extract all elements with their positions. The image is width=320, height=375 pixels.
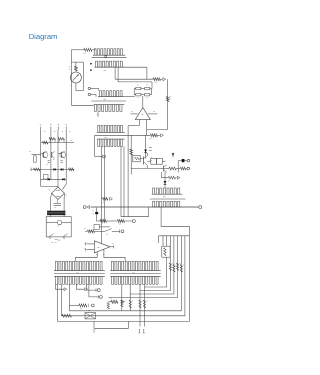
wire Q drop to comb bbox=[164, 172, 166, 188]
motor box M2 bbox=[46, 217, 71, 237]
resistor R35 bbox=[180, 265, 182, 273]
row resistor R17 bbox=[118, 220, 125, 223]
bridge rectifier BR1 bbox=[52, 187, 65, 200]
wire J4 route down bbox=[58, 207, 190, 321]
wire drop arrow 2 bbox=[77, 284, 85, 289]
diode D6 bbox=[172, 153, 174, 157]
resistor R29 bbox=[58, 138, 65, 141]
resistor R32 bbox=[169, 263, 171, 271]
pin mark J1 left a bbox=[90, 63, 91, 64]
wire vertical V1 bbox=[100, 147, 102, 232]
wire J4 drop bbox=[148, 207, 150, 217]
wire bus line B1 bbox=[145, 257, 167, 287]
connector J5 row A pins bbox=[54, 261, 105, 271]
wire transformer drops bbox=[49, 215, 51, 217]
wire L stub bbox=[94, 321, 128, 328]
connector J5 row B pins bbox=[54, 276, 105, 284]
transistor Q3 bbox=[60, 152, 66, 158]
component K1 black bbox=[182, 159, 184, 162]
connector J2 row A pins bbox=[98, 91, 124, 97]
resistor R30 bbox=[34, 168, 41, 171]
wire J1 pin drop a bbox=[114, 67, 116, 79]
wire U3 input+ bbox=[87, 243, 95, 245]
left stub with capacitor C5 bbox=[32, 154, 41, 156]
resistor R5 bbox=[145, 87, 150, 90]
wire rect bus bbox=[121, 216, 149, 218]
wire end stub VR4 bbox=[143, 329, 145, 333]
wire hanging bus bbox=[159, 235, 190, 237]
wire right feedback vertical bbox=[167, 79, 169, 129]
terminal T2 output bbox=[161, 134, 164, 137]
wire vertical VL2 bbox=[60, 284, 62, 316]
wire hanging stub left bbox=[158, 236, 160, 243]
wire meter stem bbox=[75, 62, 77, 66]
label J5 part bbox=[76, 272, 78, 274]
capacitor C4 bbox=[60, 160, 62, 162]
transistor Q5 bbox=[143, 157, 145, 165]
resistor R10 bbox=[130, 149, 133, 155]
resistor R33 bbox=[173, 265, 175, 273]
resistor R26 box bbox=[162, 246, 170, 257]
transistor Q1 bbox=[42, 152, 48, 158]
resistor bridge right node bbox=[150, 88, 152, 90]
label row3 bbox=[84, 227, 85, 229]
wire vertical V4 bbox=[123, 147, 125, 217]
label wavy bbox=[55, 239, 61, 240]
wire vertical VR4 bbox=[144, 284, 146, 326]
motor box bottom stubs bbox=[49, 237, 51, 239]
wire J6 separator bbox=[110, 273, 160, 275]
wire J2 bar extension bbox=[124, 96, 135, 98]
transistor Q6 bbox=[163, 166, 165, 172]
wire left vertical V7 bbox=[130, 135, 132, 174]
wire U3 input- bbox=[87, 249, 95, 251]
switch SW2 bottom-left bbox=[49, 234, 54, 237]
bus bar J1 bottom bbox=[95, 66, 147, 68]
diode D2 bbox=[61, 168, 63, 171]
label J6 part bbox=[132, 272, 134, 274]
connector J3 row B pins bbox=[97, 139, 125, 146]
row resistor R16 bbox=[97, 220, 101, 222]
wire vertical V5 bbox=[127, 126, 129, 217]
wire bridge center drop bbox=[142, 96, 144, 108]
terminal pin P1 bbox=[88, 87, 90, 89]
diode D4 bbox=[62, 178, 64, 181]
wire node line lower bbox=[118, 81, 152, 83]
Q-block pin stubs bbox=[40, 127, 42, 130]
wire diamond to box sides bbox=[50, 193, 51, 199]
bus mid-right bbox=[131, 168, 160, 170]
wire Q-block bottom bbox=[41, 185, 58, 187]
wire stem to meter bbox=[75, 71, 77, 72]
resistor R12 R13 double box bbox=[151, 158, 157, 164]
resistor R19 to terminal bbox=[69, 304, 79, 306]
terminal T1 output bbox=[161, 78, 163, 80]
resistor R23 bbox=[139, 300, 141, 308]
bus line J3 middle bbox=[95, 134, 151, 136]
wire U1 right leg bus bbox=[147, 129, 168, 131]
wire J1 pin drop b bbox=[117, 67, 119, 82]
label T2 bbox=[150, 138, 152, 140]
terminal T3 bbox=[103, 155, 106, 158]
connector J1 row A pins bbox=[93, 49, 125, 56]
transistor Q2 bbox=[51, 152, 53, 158]
resistor R8 on feedback bbox=[166, 97, 169, 102]
wire loop top bbox=[71, 61, 83, 63]
bus line long bbox=[91, 206, 199, 208]
meter M1 bbox=[70, 72, 81, 83]
wire box feed b bbox=[166, 236, 168, 246]
relay K3 box bbox=[85, 313, 96, 319]
resistor R14a bbox=[160, 168, 169, 170]
capacitor C3 bbox=[48, 160, 50, 162]
resistor R3 bbox=[153, 78, 161, 81]
row3 resistor R18 bbox=[85, 230, 87, 232]
wire drop terminal 1 bbox=[87, 284, 97, 290]
wire vertical VL1 bbox=[57, 284, 59, 321]
wire main left vertical bbox=[70, 50, 72, 106]
terminal T4 with resistor bbox=[101, 198, 102, 200]
diode D1 bbox=[53, 168, 55, 171]
wire drop arrow 1 bbox=[56, 284, 64, 289]
wire bus line B4 bbox=[108, 236, 177, 298]
resistor R4 bbox=[136, 87, 141, 90]
wire U3 feedback bbox=[100, 231, 102, 243]
wire bus down right bbox=[146, 67, 148, 79]
terminal T8 right bbox=[199, 206, 202, 209]
wire vertical V3 bbox=[120, 147, 122, 217]
terminal T5 bbox=[184, 160, 187, 162]
wire vertical V2 bbox=[104, 147, 106, 222]
wire U1 right output stub bbox=[148, 113, 157, 115]
fuse F1 bbox=[84, 48, 92, 51]
wire vertical VR2 bbox=[129, 284, 131, 311]
wire U1 left input stub bbox=[131, 113, 138, 115]
switch SW1 bbox=[105, 229, 112, 232]
resistor bridge left node bbox=[133, 89, 135, 95]
resistor R24 bbox=[143, 300, 145, 308]
op-amp U3 bbox=[94, 241, 110, 253]
resistor R27 bbox=[43, 141, 49, 144]
bus Q-block 3 bbox=[41, 178, 66, 180]
resistor R31 bbox=[69, 168, 75, 171]
wire vertical VR1 bbox=[121, 284, 123, 311]
label col pins bbox=[44, 131, 45, 133]
capacitor C1 marks bbox=[149, 147, 152, 149]
terminal T10 bbox=[119, 230, 121, 234]
terminal T6 bbox=[186, 168, 187, 170]
wire J3 left drop bbox=[94, 135, 96, 156]
resistor R34 bbox=[177, 263, 179, 271]
motor line with lamp bbox=[46, 221, 57, 223]
wire meter bottom stub bbox=[75, 83, 77, 91]
switch SW3 bottom-right bbox=[63, 234, 68, 237]
wire Q-block verticals bbox=[40, 129, 42, 186]
terminal T7 left bbox=[83, 206, 86, 209]
op-amp U1 bbox=[135, 108, 150, 120]
label U3 pins bbox=[96, 254, 98, 256]
wire loop right vertical bbox=[82, 62, 84, 91]
label J2 part bbox=[104, 98, 106, 100]
label meter pin 4 bbox=[70, 85, 72, 87]
wire row to bus bbox=[147, 153, 149, 156]
wire antenna stub bbox=[93, 321, 95, 328]
wire bus line B6 bbox=[61, 236, 185, 316]
terminal T11 row bbox=[108, 301, 111, 303]
connector J6 row B pins bbox=[110, 276, 160, 284]
label R2 bbox=[69, 66, 71, 68]
label bus1 right bbox=[71, 140, 73, 142]
filter box K5 bbox=[49, 200, 51, 211]
wire loop bottom bbox=[76, 90, 84, 92]
connector J2 row B pins bbox=[94, 105, 125, 112]
label bridge bbox=[137, 84, 139, 86]
wire bottom horizontal to connector bbox=[71, 104, 93, 106]
wire drop terminal 2 bbox=[89, 284, 99, 297]
connector J4 row B pins bbox=[152, 201, 182, 207]
label bottom bbox=[52, 242, 54, 244]
resistor R21 bbox=[121, 300, 123, 307]
wire node line upper bbox=[115, 78, 153, 80]
wire cap drop bbox=[96, 208, 98, 221]
label J3 part bbox=[105, 137, 107, 139]
wire vertical VL3 bbox=[68, 284, 70, 311]
label J1 part bbox=[104, 70, 106, 72]
resistor R14b bbox=[180, 167, 186, 170]
wire J4 separator bbox=[150, 198, 186, 200]
component box K4 bbox=[43, 175, 48, 179]
wire J5 separator bbox=[54, 273, 105, 275]
capacitor C2 polarized bbox=[95, 212, 98, 214]
wire U1 junction drop bbox=[146, 130, 148, 136]
terminal T9 bbox=[132, 220, 135, 223]
wire bus line B3 bbox=[130, 236, 174, 294]
small marks bbox=[151, 157, 153, 159]
label J2 stub bbox=[97, 114, 99, 116]
resistor R15 to terminal bbox=[160, 172, 162, 178]
pin mark J1 left b bbox=[90, 70, 91, 71]
transformer TR1 primary bbox=[47, 211, 65, 213]
diode D7 bbox=[164, 181, 167, 184]
wire box feed a bbox=[162, 236, 164, 246]
component box K2 bbox=[94, 224, 99, 229]
wire U1 leg right bbox=[146, 120, 148, 130]
bus Q-block 1 bbox=[41, 142, 74, 144]
connector J3 row A pins bbox=[97, 125, 125, 132]
wire bus line B2 bbox=[140, 236, 170, 291]
bus Q-block 2 bbox=[31, 168, 74, 170]
resistor R7 bbox=[145, 93, 150, 96]
resistor R22 bbox=[129, 300, 131, 308]
terminal pin P2 bbox=[88, 93, 90, 95]
resistor R2 above meter bbox=[75, 66, 78, 71]
wire J1 separator line bbox=[92, 57, 127, 59]
connector J6 row A pins bbox=[110, 261, 160, 271]
resistor R20 bbox=[107, 303, 109, 310]
resistor R9 bbox=[151, 134, 158, 137]
resistor R28 bbox=[49, 138, 56, 141]
connector J4 row A pins bbox=[152, 188, 183, 194]
wire end stub VR3 bbox=[138, 329, 140, 333]
resistor R6 bbox=[136, 93, 141, 96]
label T1 bbox=[155, 82, 157, 84]
diode D3 bbox=[48, 178, 50, 181]
wire J2 separator line bbox=[91, 100, 126, 102]
connector J1 row B pins bbox=[95, 61, 125, 67]
resistor R11 box bbox=[133, 155, 140, 162]
junction mark J1 bbox=[105, 56, 107, 58]
diode D5 bbox=[144, 150, 147, 153]
label J4 part bbox=[163, 196, 165, 198]
wire bus line B5 bbox=[69, 236, 181, 311]
svg-text:Diagram: Diagram bbox=[29, 32, 58, 41]
transformer TR1 secondary bbox=[47, 213, 65, 215]
wire Q-block right drop bbox=[63, 184, 67, 190]
resistor R25 on bus bbox=[62, 314, 72, 317]
wire top horizontal to fuse bbox=[71, 49, 83, 51]
label F1 bbox=[84, 52, 86, 54]
wire U3 leg right bbox=[104, 250, 125, 262]
capacitor C6 bbox=[54, 202, 62, 204]
wire V6 drop bbox=[145, 135, 147, 158]
wire vertical VR3 bbox=[139, 284, 141, 326]
wire U3 output stub bbox=[110, 246, 114, 248]
wire U1 left leg bus bbox=[128, 125, 139, 127]
wire bridge right riser bbox=[151, 82, 153, 89]
wire U1 leg left bbox=[138, 120, 140, 126]
wire U3 leg left bbox=[76, 252, 98, 261]
